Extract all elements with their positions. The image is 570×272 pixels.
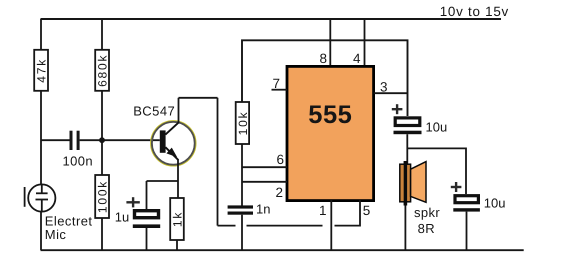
svg-text:10v to 15v: 10v to 15v: [440, 4, 509, 19]
wire R2 to R3 junction: [101, 91, 103, 175]
wire pin 8 to top rail: [329, 19, 331, 65]
svg-text:6: 6: [276, 152, 284, 167]
svg-text:680k: 680k: [95, 54, 109, 87]
svg-text:2: 2: [275, 185, 283, 200]
svg-text:4: 4: [353, 51, 361, 66]
wire Q1 emitter down: [177, 160, 179, 198]
transistor Q1 BC547: [151, 121, 196, 166]
wire top rail to R2 680k: [101, 19, 103, 50]
capacitor C2 1u electrolytic: [126, 197, 160, 228]
svg-text:3: 3: [380, 79, 388, 94]
svg-text:spkr: spkr: [414, 205, 440, 220]
svg-text:100k: 100k: [96, 180, 110, 213]
svg-text:BC547: BC547: [133, 104, 175, 119]
capacitor C3 1n: [228, 205, 253, 214]
wire junction to Q1 base: [102, 139, 160, 141]
pin 6 stub: [242, 166, 287, 168]
wire collector to pin5 segment a: [218, 225, 236, 227]
wire Q1 collector up: [178, 98, 180, 123]
wire pin 1 to ground rail: [330, 200, 332, 250]
svg-text:1k: 1k: [170, 211, 184, 227]
svg-text:7: 7: [273, 76, 281, 91]
junction node base divider: [99, 137, 105, 143]
svg-text:10k: 10k: [236, 111, 250, 136]
wire C2 to ground rail: [146, 228, 148, 250]
svg-text:555: 555: [308, 101, 352, 129]
wire C1 to junction: [80, 139, 102, 141]
wire mic to ground rail: [40, 212, 42, 250]
svg-text:1u: 1u: [115, 209, 129, 224]
speaker LS1: [400, 161, 426, 206]
wire mic line to C1: [41, 139, 70, 141]
svg-text:8R: 8R: [418, 221, 435, 236]
resistor R2 680k: [95, 50, 109, 91]
wire collector horizontal: [179, 97, 218, 99]
svg-text:1n: 1n: [256, 201, 270, 216]
wire speaker node to C5: [407, 148, 466, 194]
wire pin 5 down: [335, 200, 361, 226]
wire top rail to R1 47k: [40, 19, 42, 50]
svg-text:1: 1: [319, 203, 327, 218]
wire R5 down to C3: [241, 144, 243, 206]
wire R4 to ground rail: [176, 240, 178, 250]
wire C5 to ground rail: [466, 212, 468, 250]
wire R1 to electret mic: [40, 91, 42, 185]
pin 2 stub: [242, 181, 287, 183]
wire C3 to ground rail: [241, 215, 243, 250]
wire collector to pin5 segment b: [247, 225, 323, 227]
svg-text:Mic: Mic: [45, 227, 67, 242]
resistor R3 100k: [95, 175, 109, 218]
wire feedback top: [242, 40, 408, 116]
wire pin 4 to top rail: [364, 19, 366, 65]
svg-text:47k: 47k: [34, 58, 48, 83]
svg-text:10u: 10u: [426, 119, 448, 134]
resistor R4 1k: [170, 198, 184, 240]
svg-text:5: 5: [363, 203, 371, 218]
wire bottom ground rail: [41, 249, 524, 251]
svg-text:8: 8: [319, 51, 327, 66]
svg-text:10u: 10u: [484, 196, 506, 211]
wire top supply rail: [41, 18, 502, 20]
capacitor C5 10u electrolytic: [451, 182, 480, 212]
wire C4 to speaker: [406, 134, 408, 164]
pin 7 stub: [272, 89, 288, 91]
pin 3 stub: [374, 92, 408, 94]
IC U1 555: [287, 66, 374, 200]
wire collector down: [217, 98, 219, 226]
capacitor C4 10u electrolytic: [392, 104, 422, 134]
capacitor C1 100n: [70, 131, 80, 150]
resistor R1 47k: [34, 50, 48, 91]
wire emitter to C2: [147, 180, 179, 182]
svg-text:100n: 100n: [63, 154, 94, 169]
microphone MIC1 electret: [25, 184, 56, 211]
resistor R5 10k: [236, 102, 250, 144]
wire R3 to ground rail: [101, 218, 103, 250]
wire speaker to ground rail: [404, 206, 406, 251]
